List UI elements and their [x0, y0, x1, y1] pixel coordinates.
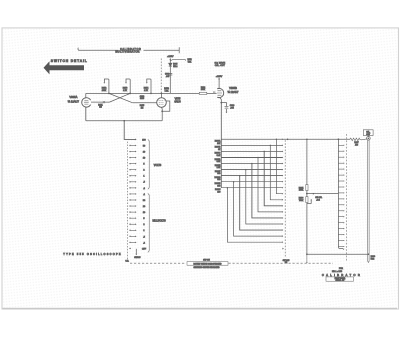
wire V875 cathode — [161, 107, 164, 120]
svg-text:3900: 3900 — [140, 98, 144, 100]
note box — [187, 262, 228, 266]
capacitor C880 — [168, 74, 172, 76]
svg-text:FOR: FOR — [339, 268, 344, 270]
resistor R872 hook — [104, 79, 109, 93]
switch contact .1 — [129, 193, 130, 194]
switch contact 1 — [129, 175, 130, 176]
wire ladder drop 1 — [276, 139, 282, 193]
switch contact 2 — [129, 169, 130, 170]
svg-text:100K: 100K — [299, 190, 304, 192]
svg-text:SECTIONS SHOWN SEPARATED: SECTIONS SHOWN SEPARATED — [193, 266, 220, 269]
wire ladder drop 2 — [270, 145, 282, 199]
contact wafer3 — [338, 192, 343, 194]
svg-text:V885B: V885B — [229, 86, 237, 90]
junction feed-output bus — [306, 139, 308, 141]
wire V875 plate — [161, 93, 163, 97]
svg-text:NE-2: NE-2 — [173, 66, 177, 68]
svg-text:MR 1 + 5.56: MR 1 + 5.56 — [332, 271, 342, 273]
wire output bus — [306, 139, 308, 254]
ground terminator — [367, 262, 369, 264]
junction feed-wafer2 — [287, 139, 289, 141]
contact wafer3 — [338, 216, 343, 218]
junction output corner — [306, 253, 308, 255]
resistor R890J tap — [221, 187, 282, 189]
resistor R890C tap — [221, 150, 282, 152]
title box — [326, 277, 354, 281]
wire V885A cathode — [85, 107, 87, 121]
resistor R890D tap — [221, 157, 282, 159]
junction bus-branch — [123, 120, 125, 122]
switch SW885 wafer 3 — [337, 139, 339, 247]
wiper hook wafer 3 — [338, 247, 343, 248]
wire V885B plate — [218, 78, 220, 89]
wire divider bus — [220, 103, 222, 188]
bracket calibrator multivibrator — [78, 47, 179, 53]
wire V875 grid — [133, 102, 157, 104]
capacitor C884 tick — [214, 91, 215, 93]
switch contact .5 — [129, 181, 130, 182]
junction output node — [306, 193, 308, 195]
svg-text:900: 900 — [217, 173, 220, 175]
wire output bus tail — [306, 254, 308, 262]
wire ladder drop 4 — [258, 158, 282, 212]
contact wafer3 — [338, 240, 343, 242]
tube V885B (half 12AU7) — [217, 88, 223, 97]
svg-text:SQ. WAVE: SQ. WAVE — [215, 61, 226, 64]
wire V885B cathode — [220, 97, 222, 102]
svg-text:+225V: +225V — [216, 76, 223, 78]
contact wafer3 — [338, 210, 343, 212]
contact wafer3 — [338, 234, 343, 236]
resistor R890G tap — [221, 175, 282, 177]
svg-text:FIRST MODEL: FIRST MODEL — [335, 278, 346, 280]
svg-text:.2 Ω: .2 Ω — [316, 199, 320, 201]
switch contact 10 — [129, 211, 130, 212]
switch contact 5 — [129, 217, 130, 218]
switch contact 5 — [129, 163, 130, 164]
resistor R873 hook — [126, 79, 130, 93]
contact wafer3 — [338, 156, 343, 158]
contact wafer3 — [338, 228, 343, 230]
svg-text:CALIBRATOR: CALIBRATOR — [322, 273, 362, 277]
tube V885A (half 12AU7) — [82, 98, 91, 107]
mechanical link bottom (dashed) — [130, 262, 333, 264]
switch contact 1 — [129, 230, 130, 231]
switch contact 20 — [129, 151, 130, 152]
capacitor C881 tick — [103, 101, 104, 103]
svg-text:V885A: V885A — [69, 95, 77, 99]
svg-text:C.B.: C.B. — [125, 260, 129, 262]
wire cathode bus — [86, 120, 162, 122]
contact wafer3 — [338, 180, 343, 182]
switch contact .5 — [129, 236, 130, 237]
svg-text:CAL. OUT: CAL. OUT — [215, 64, 226, 67]
resistor R895 — [306, 185, 308, 191]
diode D880 — [169, 63, 172, 66]
switch contact .2 — [129, 242, 130, 243]
junction screen-cathode — [161, 110, 163, 112]
label CAL OUT box — [363, 130, 373, 136]
svg-text:150K: 150K — [102, 90, 107, 92]
svg-text:MULTIVIBRATOR: MULTIVIBRATOR — [115, 51, 139, 54]
wire branch to SW885 — [124, 121, 135, 140]
capacitor C889 branch — [221, 103, 226, 112]
svg-text:750K: 750K — [299, 200, 304, 202]
junction R873-rail — [129, 93, 131, 95]
wire V885A plate — [85, 93, 87, 98]
svg-text:½ 12AU7: ½ 12AU7 — [228, 90, 239, 94]
contact wafer3 — [338, 198, 343, 200]
svg-text:VOLTS: VOLTS — [154, 165, 162, 167]
junction cathode node — [220, 102, 222, 104]
junction R874-rail — [150, 93, 152, 95]
resistor R890B tap — [221, 144, 282, 146]
contact wafer3 — [338, 204, 343, 206]
svg-text:.005: .005 — [166, 76, 170, 78]
junction dashed-rail — [161, 93, 163, 95]
wire ladder drop 7 — [240, 176, 283, 231]
resistor R896 — [306, 197, 308, 203]
resistor R890H tap — [221, 181, 282, 183]
contact wafer3 — [338, 150, 343, 152]
wire ladder drop 9 — [227, 188, 282, 243]
wire output tap to wafer3 — [307, 193, 339, 195]
svg-text:+225V: +225V — [167, 56, 174, 58]
junction R872-rail — [108, 93, 110, 95]
resistor R890E tap — [221, 163, 282, 165]
resistor R890A tap — [221, 138, 350, 140]
svg-text:470: 470 — [355, 145, 358, 147]
contact wafer3 — [338, 186, 343, 188]
link line (dashed) — [160, 59, 162, 93]
wire +225V vertical feed — [169, 58, 171, 93]
junction feed-wafer3 — [338, 138, 340, 140]
wiper arrow wafer 2 — [282, 248, 284, 250]
contact wafer3 — [338, 222, 343, 224]
switch contact 20 — [129, 205, 130, 206]
contact wafer3 — [338, 174, 343, 176]
wire cross-coupling B — [109, 93, 133, 102]
switch contact 2 — [129, 224, 130, 225]
svg-text:50Ω: 50Ω — [371, 259, 375, 261]
wire ladder drop 5 — [252, 164, 282, 218]
switch contact .2 — [129, 187, 130, 188]
svg-text:½ 12AU7: ½ 12AU7 — [68, 99, 80, 103]
wire jack shield down — [368, 140, 369, 261]
switch shaft (dashed) — [346, 134, 348, 262]
wire output to jack shield — [307, 253, 368, 255]
contact wafer3 — [338, 144, 343, 146]
contact wafer3 — [338, 162, 343, 164]
svg-text:.005: .005 — [230, 108, 234, 110]
wiper arrow — [135, 249, 137, 254]
svg-text:180: 180 — [217, 191, 220, 193]
svg-text:540: 540 — [217, 179, 220, 181]
connector J890 — [367, 136, 369, 137]
wire ladder drop 3 — [264, 151, 282, 205]
svg-text:SW885: SW885 — [134, 257, 140, 259]
svg-text:ROTARY SWITCH CAM-OPERATED: ROTARY SWITCH CAM-OPERATED — [194, 262, 223, 265]
switch contact 50 — [129, 145, 130, 146]
switch contact hook — [307, 200, 311, 203]
bracket millivolts — [148, 194, 149, 253]
resistor R874 hook — [147, 79, 151, 93]
wire plate rail — [86, 92, 217, 94]
svg-text:TYPE 555 OSCILLOSCOPE: TYPE 555 OSCILLOSCOPE — [63, 253, 122, 256]
tube V875 (6AU6) — [157, 98, 167, 108]
net hook to B+ — [170, 59, 185, 61]
wire ladder drop 8 — [234, 182, 283, 236]
wire V885A grid — [91, 101, 110, 103]
svg-text:SN 101 - UP: SN 101 - UP — [336, 280, 345, 282]
switch detail arrow — [44, 61, 85, 74]
wire V875 screen loop — [162, 101, 170, 111]
switch contact 10 — [129, 157, 130, 158]
switch SW885 wafer 2 (dashed) — [284, 140, 286, 257]
svg-text:MILLIVOLTS: MILLIVOLTS — [153, 221, 167, 223]
switch SW885 wafer 1 (dashed) — [126, 142, 128, 261]
resistor R897 — [350, 138, 367, 141]
resistor R884 inline — [199, 92, 207, 94]
svg-text:6AU6: 6AU6 — [174, 101, 181, 104]
bracket volts — [148, 140, 149, 190]
contact wafer3 — [338, 246, 343, 248]
contact wafer3 — [338, 168, 343, 170]
svg-text:360: 360 — [217, 185, 220, 187]
switch contact 50 — [129, 199, 130, 200]
svg-text:SWITCH DETAIL: SWITCH DETAIL — [51, 59, 88, 63]
junction jack shield — [368, 253, 370, 255]
wire cross-coupling A — [110, 93, 131, 102]
wire ladder drop 6 — [246, 170, 282, 224]
resistor R890F tap — [221, 169, 282, 171]
switch contact OFF — [129, 248, 130, 249]
